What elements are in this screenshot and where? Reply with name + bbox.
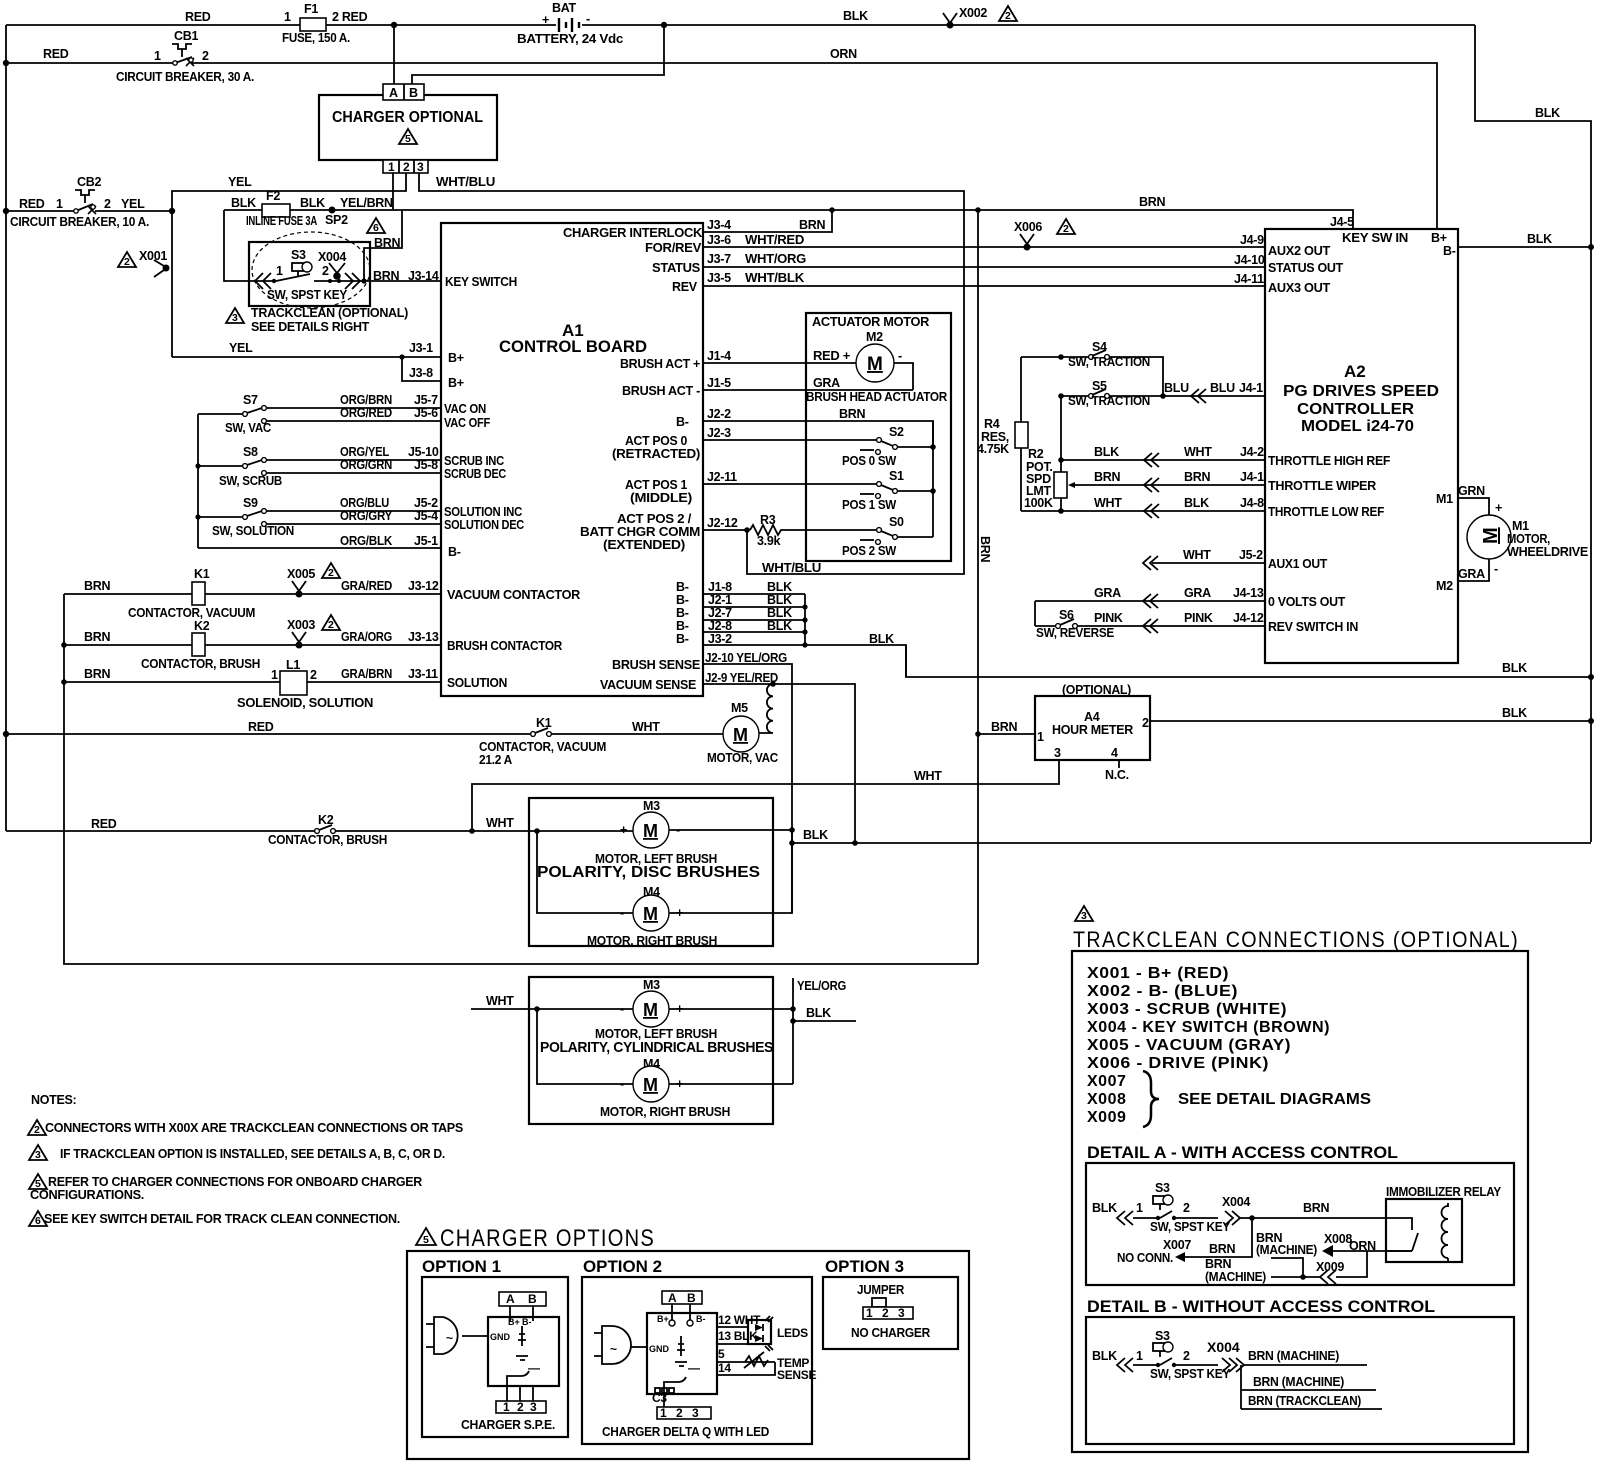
wire BLK B- right drop (1475, 25, 1591, 842)
node S5 junction (1160, 393, 1166, 399)
connector X005 tap (287, 567, 315, 598)
motor M1 wheeldrive (1467, 515, 1588, 559)
svg-text:2: 2 (322, 264, 329, 278)
wire J3-11 solution (64, 681, 441, 683)
svg-text:GRA/ORG: GRA/ORG (341, 630, 392, 644)
SEC6 (28, 1093, 969, 1459)
svg-text:J3-4: J3-4 (707, 218, 731, 232)
wire J4-8 throttle low (1021, 510, 1265, 512)
svg-text:SW, VAC: SW, VAC (225, 421, 271, 435)
svg-text:SW, SOLUTION: SW, SOLUTION (212, 524, 294, 538)
svg-text:SP2: SP2 (325, 213, 348, 227)
svg-text:CONTACTOR, VACUUM: CONTACTOR, VACUUM (128, 606, 255, 620)
svg-text:1: 1 (660, 1406, 667, 1420)
wire BLK B- long (906, 645, 1591, 677)
svg-text:SW, SCRUB: SW, SCRUB (219, 474, 282, 488)
svg-text:CHARGER DELTA Q WITH LED: CHARGER DELTA Q WITH LED (602, 1425, 769, 1439)
option2 C3 connector (652, 1388, 674, 1405)
option 1 box (422, 1277, 568, 1437)
svg-text:BLK: BLK (1535, 106, 1560, 120)
connector X004 tap (318, 250, 346, 283)
svg-text:—: — (528, 1361, 540, 1375)
svg-text:DETAIL B - WITHOUT ACCESS CONT: DETAIL B - WITHOUT ACCESS CONTROL (1087, 1297, 1435, 1316)
svg-text:B+: B+ (448, 376, 464, 390)
svg-text:STATUS: STATUS (652, 261, 700, 275)
svg-text:BRUSH ACT +: BRUSH ACT + (620, 357, 700, 371)
svg-text:BLK: BLK (1502, 706, 1527, 720)
svg-text:BRN: BRN (1184, 470, 1210, 484)
solenoid L1 (237, 658, 373, 710)
svg-text:CONNECTORS WITH X00X ARE TRACK: CONNECTORS WITH X00X ARE TRACKCLEAN CONN… (45, 1121, 463, 1135)
svg-text:S7: S7 (243, 393, 258, 407)
wire J3-12 vacuum contactor (64, 593, 441, 595)
node BLK junction (789, 840, 795, 846)
svg-text:WHT: WHT (486, 994, 514, 1008)
wire B- bus J2-1 (703, 606, 805, 608)
svg-text:6: 6 (373, 222, 379, 234)
svg-text:GRA/BRN: GRA/BRN (341, 667, 392, 681)
svg-text:B-: B- (676, 619, 689, 633)
svg-text:INLINE FUSE 3A: INLINE FUSE 3A (246, 214, 317, 228)
svg-text:ORN: ORN (830, 47, 857, 61)
option2 charger rect (647, 1313, 717, 1394)
svg-text:BRN: BRN (839, 407, 865, 421)
svg-text:B-: B- (696, 1314, 706, 1324)
wire J3-8 B+ (402, 357, 441, 381)
svg-text:CHARGER OPTIONAL: CHARGER OPTIONAL (332, 109, 483, 126)
svg-text:GRA: GRA (1458, 567, 1485, 581)
svg-text:2: 2 (1183, 1349, 1190, 1363)
svg-text:X006 - DRIVE (PINK): X006 - DRIVE (PINK) (1087, 1055, 1269, 1072)
svg-text:BLU: BLU (1164, 381, 1189, 395)
svg-text:1: 1 (1037, 730, 1044, 744)
svg-text:BRN: BRN (1139, 195, 1165, 209)
svg-text:SCRUB DEC: SCRUB DEC (444, 467, 506, 481)
fuse F1 (300, 18, 326, 31)
svg-text:(RETRACTED): (RETRACTED) (612, 447, 700, 461)
warning triangle 6 near SP2 (367, 218, 385, 234)
svg-text:BLK: BLK (1184, 496, 1209, 510)
svg-text:3: 3 (35, 1149, 41, 1161)
svg-text:ACT POS 0: ACT POS 0 (625, 434, 687, 448)
wire charger pin1 (392, 173, 394, 210)
svg-text:B+: B+ (448, 351, 464, 365)
svg-text:GRA: GRA (813, 376, 840, 390)
option2 connector 1 2 3 (657, 1406, 711, 1420)
svg-text:1: 1 (503, 1400, 510, 1414)
svg-text:NOTES:: NOTES: (31, 1093, 76, 1107)
charger optional box (319, 95, 497, 160)
hour meter A4 box (1035, 683, 1150, 760)
svg-text:K2: K2 (194, 619, 210, 633)
svg-text:(MIDDLE): (MIDDLE) (630, 491, 692, 505)
warning triangle 3 trackclean note (226, 308, 244, 324)
svg-text:J4-13: J4-13 (1233, 586, 1264, 600)
svg-text:CONTACTOR, BRUSH: CONTACTOR, BRUSH (268, 833, 387, 847)
svg-text:M3: M3 (643, 978, 660, 992)
svg-text:M: M (643, 1075, 658, 1095)
svg-text:NO CONN.: NO CONN. (1117, 1251, 1173, 1265)
svg-text:1: 1 (866, 1306, 873, 1320)
svg-text:2: 2 (403, 160, 410, 174)
svg-text:2: 2 (1142, 716, 1149, 730)
svg-text:CB2: CB2 (77, 175, 101, 189)
svg-text:CONTACTOR, BRUSH: CONTACTOR, BRUSH (141, 657, 260, 671)
option2 internal (677, 1336, 685, 1356)
svg-text:BRN: BRN (1094, 470, 1120, 484)
svg-text:2: 2 (1005, 10, 1011, 22)
svg-text:WHT/BLK: WHT/BLK (745, 271, 804, 285)
node disc left branch (534, 828, 540, 834)
wire J5-2 SOLUTION INC (267, 510, 441, 512)
svg-text:J2-3: J2-3 (707, 426, 731, 440)
svg-text:2: 2 (1183, 1201, 1190, 1215)
svg-text:M5: M5 (731, 701, 748, 715)
switch S1 pos 1 (842, 469, 936, 512)
svg-text:J3-13: J3-13 (408, 630, 439, 644)
svg-text:B-: B- (522, 1317, 532, 1327)
wire hour meter pin4 stub (1118, 760, 1120, 768)
svg-text:J5-8: J5-8 (414, 458, 438, 472)
svg-text:TRACKCLEAN CONNECTIONS (OPTION: TRACKCLEAN CONNECTIONS (OPTIONAL) (1073, 927, 1519, 952)
node SP2 (329, 207, 336, 214)
svg-text:SEE DETAIL DIAGRAMS: SEE DETAIL DIAGRAMS (1178, 1091, 1371, 1108)
circuit breaker CB1 (43, 29, 254, 84)
svg-text:CIRCUIT BREAKER, 10 A.: CIRCUIT BREAKER, 10 A. (10, 215, 149, 229)
svg-text:2: 2 (124, 256, 130, 268)
svg-text:BRUSH CONTACTOR: BRUSH CONTACTOR (447, 639, 562, 653)
svg-text:S8: S8 (243, 445, 258, 459)
svg-text:OPTION 3: OPTION 3 (825, 1257, 904, 1276)
cylindrical brushes box (529, 977, 773, 1124)
svg-text:2: 2 (104, 197, 111, 211)
svg-text:RED: RED (43, 47, 69, 61)
svg-text:J4-1: J4-1 (1240, 470, 1264, 484)
wire M2 minus to J1-5 (894, 363, 913, 390)
svg-text:J1-4: J1-4 (707, 349, 731, 363)
svg-text:2: 2 (882, 1306, 889, 1320)
wire J4-12 rev switch (1077, 625, 1265, 627)
svg-text:BLK: BLK (767, 619, 792, 633)
wire key BLK from F2 (224, 210, 272, 281)
svg-text:1: 1 (388, 160, 395, 174)
switch S7 SW VAC (198, 393, 271, 435)
switch S0 pos 2 (842, 515, 933, 558)
wire disc M4 loop (537, 829, 792, 913)
svg-text:X001: X001 (139, 249, 167, 263)
svg-text:J4-12: J4-12 (1233, 611, 1264, 625)
wire B- BLK right (1458, 246, 1591, 248)
wire B- bus J2-7 (703, 619, 805, 621)
motor M4 cylindrical (600, 1057, 730, 1119)
svg-text:5: 5 (423, 1234, 429, 1246)
wire A riser to B+ (393, 25, 395, 84)
svg-text:BRN: BRN (1303, 1201, 1329, 1215)
svg-text:VAC ON: VAC ON (444, 402, 486, 416)
svg-text:J4-11: J4-11 (1234, 272, 1264, 286)
wire cyl M4 loop (537, 1009, 793, 1084)
detail A X009 wire (1205, 1251, 1367, 1284)
svg-text:5: 5 (718, 1347, 725, 1361)
svg-text:S3: S3 (1155, 1329, 1170, 1343)
wire B- bus J2-8 (703, 631, 805, 633)
svg-text:WHEELDRIVE: WHEELDRIVE (1507, 545, 1588, 559)
svg-text:BLK: BLK (1502, 661, 1527, 675)
node R3 left (744, 527, 750, 533)
svg-text:ACT POS 2 /: ACT POS 2 / (617, 512, 692, 526)
svg-text:SW, REVERSE: SW, REVERSE (1036, 626, 1114, 640)
svg-text:0 VOLTS OUT: 0 VOLTS OUT (1268, 595, 1346, 609)
svg-text:~: ~ (610, 1342, 617, 1356)
svg-text:THROTTLE LOW REF: THROTTLE LOW REF (1268, 505, 1385, 519)
svg-text:RED +: RED + (813, 349, 850, 363)
wire J5-8 SCRUB DEC (267, 472, 441, 474)
svg-text:-: - (1494, 562, 1498, 576)
svg-text:1: 1 (1136, 1201, 1143, 1215)
svg-text:3: 3 (1054, 746, 1061, 760)
svg-text:J4-2: J4-2 (1240, 445, 1264, 459)
svg-text:X001 - B+ (RED): X001 - B+ (RED) (1087, 965, 1229, 982)
svg-text:BAT: BAT (552, 1, 577, 15)
fuse F2 inline (231, 189, 393, 228)
svg-text:SOLENOID, SOLUTION: SOLENOID, SOLUTION (237, 696, 373, 710)
svg-text:X004 - KEY SWITCH (BROWN): X004 - KEY SWITCH (BROWN) (1087, 1019, 1330, 1036)
svg-text:14: 14 (718, 1361, 731, 1375)
wire J5-7 VAC ON (267, 407, 441, 409)
detail B BRN machine 2 (1241, 1389, 1376, 1391)
svg-text:X005: X005 (287, 567, 315, 581)
svg-text:REFER TO CHARGER CONNECTIONS F: REFER TO CHARGER CONNECTIONS FOR ONBOARD… (48, 1175, 422, 1189)
svg-text:B+: B+ (1431, 231, 1447, 245)
svg-text:J3-11: J3-11 (408, 667, 438, 681)
svg-text:MOTOR, RIGHT BRUSH: MOTOR, RIGHT BRUSH (600, 1105, 730, 1119)
svg-text:J2-1: J2-1 (708, 593, 732, 607)
immobilizer relay box (1386, 1185, 1502, 1262)
svg-text:BLK: BLK (231, 196, 256, 210)
svg-text:RED: RED (91, 817, 117, 831)
wire charger pin2 YEL (172, 173, 406, 357)
svg-text:VACUUM SENSE: VACUUM SENSE (600, 678, 696, 692)
svg-text:6: 6 (35, 1215, 41, 1227)
warning triangle 2 note (28, 1120, 46, 1135)
wire J3-2 B- out (703, 645, 906, 677)
svg-text:K1: K1 (194, 567, 210, 581)
motor M3 disc (595, 799, 717, 866)
svg-text:X003: X003 (287, 618, 315, 632)
svg-text:J3-1: J3-1 (409, 341, 433, 355)
svg-text:J3-8: J3-8 (409, 366, 433, 380)
actuator motor box (806, 313, 951, 561)
SEC3 (977, 215, 1594, 663)
wire J3-13 brush contactor (64, 644, 441, 646)
svg-text:BRN: BRN (84, 667, 110, 681)
motor M5 vac (707, 701, 778, 765)
svg-text:BLU: BLU (1210, 381, 1235, 395)
wire S-rail in actuator box (932, 421, 934, 537)
switch S6 reverse (1035, 608, 1114, 640)
svg-text:YEL: YEL (229, 341, 253, 355)
detail A key switch S3 (1092, 1181, 1231, 1234)
switch rail S7-S9 (197, 414, 199, 548)
svg-text:J5-10: J5-10 (408, 445, 439, 459)
svg-text:S1: S1 (889, 469, 904, 483)
option 2 box (582, 1277, 812, 1444)
svg-text:(OPTIONAL): (OPTIONAL) (1062, 683, 1131, 697)
option2 LED bridge (748, 1316, 808, 1351)
svg-text:-: - (586, 12, 590, 26)
svg-text:ACT POS 1: ACT POS 1 (625, 478, 687, 492)
control board A1 box (441, 223, 703, 696)
SEC1 (61, 223, 703, 710)
option2 pin stub (663, 1394, 665, 1407)
wire J5-4 SOLUTION DEC (267, 523, 441, 525)
svg-text:SEE KEY SWITCH DETAIL FOR TRAC: SEE KEY SWITCH DETAIL FOR TRACK CLEAN CO… (44, 1212, 400, 1226)
connector A B box (383, 84, 424, 100)
svg-text:GND: GND (490, 1332, 511, 1342)
wire disc M3 right (669, 829, 792, 831)
option1 connector 1 2 3 (496, 1400, 546, 1414)
option1 connector A B (499, 1292, 546, 1306)
svg-text:SW, SPST KEY: SW, SPST KEY (267, 288, 348, 302)
chevrons left on key wire (255, 273, 271, 289)
wire WHT to disc M3 (472, 830, 633, 832)
svg-text:J1-5: J1-5 (707, 376, 731, 390)
svg-text:2: 2 (328, 567, 334, 579)
warning triangle 3 note (29, 1145, 47, 1160)
svg-text:ORN: ORN (1349, 1239, 1376, 1253)
svg-text:J5-6: J5-6 (414, 406, 438, 420)
wire J3-1 B+ YEL (172, 356, 441, 358)
option 3 box (823, 1277, 958, 1349)
svg-text:CONFIGURATIONS.: CONFIGURATIONS. (30, 1188, 144, 1202)
resistor R4 (977, 357, 1028, 511)
warning triangle 5 in charger box (399, 129, 417, 145)
svg-text:ORG/RED: ORG/RED (340, 406, 392, 420)
svg-text:J2-10 YEL/ORG: J2-10 YEL/ORG (705, 651, 787, 665)
svg-text:M: M (643, 821, 658, 841)
option1 internal wires (510, 1306, 533, 1321)
svg-text:X004: X004 (1222, 1195, 1250, 1209)
svg-text:B-: B- (676, 632, 689, 646)
svg-text:THROTTLE HIGH REF: THROTTLE HIGH REF (1268, 454, 1391, 468)
svg-text:MODEL i24-70: MODEL i24-70 (1301, 418, 1414, 435)
SEC7 (1072, 906, 1528, 1452)
svg-text:SCRUB INC: SCRUB INC (444, 454, 504, 468)
svg-text:YEL: YEL (228, 175, 252, 189)
svg-text:N.C.: N.C. (1105, 768, 1129, 782)
svg-text:J3-12: J3-12 (408, 579, 439, 593)
option1 charger rect (488, 1317, 559, 1386)
svg-text:F2: F2 (266, 189, 280, 203)
svg-text:POS 1 SW: POS 1 SW (842, 498, 896, 512)
svg-text:BRUSH SENSE: BRUSH SENSE (612, 658, 700, 672)
svg-text:BLK: BLK (300, 196, 325, 210)
wire J2-9 vacuum sense (703, 684, 855, 843)
motor M2 (856, 330, 902, 382)
svg-text:SOLUTION: SOLUTION (447, 676, 507, 690)
detail B key switch S3 (1092, 1329, 1231, 1381)
svg-text:X008: X008 (1087, 1091, 1126, 1108)
svg-text:21.2 A: 21.2 A (479, 753, 512, 767)
wire BRN vertical hour meter (977, 210, 979, 964)
warning triangle 2 at X002 (999, 6, 1017, 22)
svg-text:S9: S9 (243, 496, 258, 510)
trackclean ellipse dashed (252, 232, 370, 308)
switch S9 SW SOLUTION (198, 496, 294, 538)
svg-text:YEL/ORG: YEL/ORG (797, 979, 846, 993)
svg-text:J3-6: J3-6 (707, 233, 731, 247)
svg-text:SOLUTION DEC: SOLUTION DEC (444, 518, 524, 532)
svg-text:POS 2 SW: POS 2 SW (842, 544, 896, 558)
wire K1 vac RED (6, 733, 723, 735)
svg-text:(MACHINE): (MACHINE) (1205, 1270, 1266, 1284)
svg-text:3: 3 (530, 1400, 537, 1414)
svg-text:BLK: BLK (767, 593, 792, 607)
svg-text:BLK: BLK (869, 632, 894, 646)
svg-text:B-: B- (676, 580, 689, 594)
wire J2-10 brush sense (703, 664, 792, 913)
svg-text:BRN: BRN (978, 536, 992, 562)
svg-text:-: - (620, 1002, 624, 1016)
svg-text:B-: B- (448, 545, 461, 559)
svg-text:K1: K1 (536, 716, 552, 730)
svg-text:J3-14: J3-14 (408, 269, 439, 283)
svg-text:BLK: BLK (806, 1006, 831, 1020)
svg-text:B-: B- (1443, 244, 1456, 258)
wire BRN to hour meter pin1 (978, 733, 1035, 735)
contactor K2 contacts (268, 813, 387, 847)
detail B BRN trackclean (1241, 1408, 1382, 1410)
svg-text:WHT/RED: WHT/RED (745, 233, 804, 247)
svg-text:3: 3 (692, 1406, 699, 1420)
svg-text:ORG/BLU: ORG/BLU (340, 496, 389, 510)
svg-text:SEE DETAILS RIGHT: SEE DETAILS RIGHT (251, 320, 370, 334)
svg-text:S3: S3 (1155, 1181, 1170, 1195)
svg-text:OPTION 2: OPTION 2 (583, 1257, 662, 1276)
svg-text:TRACKCLEAN (OPTIONAL): TRACKCLEAN (OPTIONAL) (251, 306, 408, 320)
brace (1143, 1071, 1159, 1127)
svg-text:WHT/BLU: WHT/BLU (436, 175, 495, 189)
option2 connector A B (662, 1291, 702, 1305)
svg-text:BRN: BRN (373, 269, 399, 283)
svg-text:B-: B- (676, 593, 689, 607)
svg-text:B-: B- (676, 415, 689, 429)
wire charger pin3 WHT/BLU (419, 173, 964, 574)
wire WHT stub cyl (471, 1008, 633, 1010)
svg-text:BRUSH ACT -: BRUSH ACT - (622, 384, 700, 398)
bus vertical B- (804, 594, 806, 645)
wire BRN loop bottom (64, 594, 978, 964)
svg-text:X009: X009 (1316, 1260, 1344, 1274)
svg-text:IMMOBILIZER RELAY: IMMOBILIZER RELAY (1386, 1185, 1502, 1199)
svg-text:KEY SW IN: KEY SW IN (1342, 231, 1408, 245)
wire J3-6 FOR/REV (703, 246, 1265, 248)
svg-text:M1: M1 (1512, 519, 1529, 533)
svg-text:MOTOR, VAC: MOTOR, VAC (707, 751, 778, 765)
svg-text:J5-2: J5-2 (414, 496, 438, 510)
wire CB2 YEL rail (6, 210, 172, 212)
chevrons right X004 (345, 273, 360, 289)
wire BLK brush return (792, 842, 1591, 844)
svg-text:B+: B+ (657, 1314, 669, 1324)
warning triangle 5 charger options (416, 1228, 436, 1245)
option1 plug (426, 1317, 488, 1354)
svg-text:WHT: WHT (632, 720, 660, 734)
wire key BRN to J3-14 (314, 280, 441, 282)
svg-text:JUMPER: JUMPER (857, 1283, 904, 1297)
svg-text:J3-7: J3-7 (707, 252, 731, 266)
svg-text:BLK: BLK (1527, 232, 1552, 246)
